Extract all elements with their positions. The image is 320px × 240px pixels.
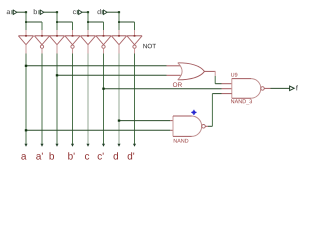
marker plus (blue) bbox=[191, 110, 196, 115]
label b bbox=[34, 9, 37, 14]
NOT gate row output stubs bbox=[26, 45, 135, 54]
wire a-prime vertical bbox=[41, 22, 43, 30]
wire a vertical bus bbox=[25, 54, 27, 147]
node net b to OR input 2 junction bbox=[56, 74, 58, 76]
wire d port to corner bbox=[107, 11, 119, 13]
wire c vertical bbox=[87, 12, 89, 30]
buffer gate (b) bbox=[49, 35, 64, 37]
label NAND_3 bbox=[231, 99, 252, 104]
label NAND bbox=[174, 139, 189, 143]
node d branch T bbox=[118, 21, 120, 23]
wire c branch bbox=[88, 21, 104, 23]
inverter NOT gate (d') bbox=[127, 35, 142, 37]
inverter NOT gate (c') bbox=[96, 35, 111, 37]
wire d' vertical bus bbox=[134, 54, 136, 147]
node net a to NAND input 2 junction bbox=[25, 129, 27, 131]
label U9 bbox=[231, 73, 237, 77]
wire b branch bbox=[57, 21, 73, 23]
label d bbox=[97, 9, 100, 14]
label d' (bottom port) bbox=[128, 152, 135, 159]
inverter NOT gate (b') bbox=[65, 35, 80, 37]
wire c vertical bus bbox=[87, 54, 89, 147]
wire net c-prime to U9 input 2 bbox=[104, 88, 222, 90]
wire OR output to U9 input 1 bbox=[205, 70, 216, 72]
wire d vertical bus bbox=[118, 54, 120, 147]
label b' (bottom port) bbox=[68, 152, 74, 159]
node c branch T bbox=[87, 21, 89, 23]
label NOT bbox=[143, 44, 156, 48]
wire net d to NAND input 1 bbox=[119, 120, 170, 122]
input port d bbox=[102, 10, 107, 14]
wire b vertical bus bbox=[56, 54, 58, 147]
node a corner bbox=[25, 11, 27, 13]
bottom output port arrows bbox=[24, 144, 136, 147]
label a bbox=[7, 10, 11, 14]
node a branch T bbox=[25, 21, 27, 23]
nand gate NAND (bottom) bbox=[172, 116, 174, 136]
node net c-prime to U9 input 2 junction bbox=[102, 88, 104, 90]
red joint dots at gate tops bbox=[25, 35, 135, 37]
wire b vertical bbox=[56, 12, 58, 30]
node c corner bbox=[87, 11, 89, 13]
wire U9 output bbox=[264, 87, 270, 89]
label d (bottom port) bbox=[114, 152, 119, 159]
label c' (bottom port) bbox=[98, 153, 104, 160]
buffer gate (d) bbox=[111, 35, 126, 37]
label a' (bottom port) bbox=[36, 153, 43, 160]
or gate OR bbox=[178, 63, 205, 80]
input port a bbox=[12, 10, 17, 14]
wire a port to corner bbox=[17, 11, 26, 13]
wire b' vertical bus bbox=[72, 54, 74, 147]
wire NAND output to U9 input 3 bbox=[205, 125, 208, 127]
node b corner bbox=[56, 11, 58, 13]
label c bbox=[73, 10, 76, 14]
node d corner bbox=[118, 11, 120, 13]
wire d branch bbox=[119, 21, 135, 23]
node b branch T bbox=[56, 21, 58, 23]
NOT gate row input stubs bbox=[26, 30, 135, 36]
output port f bbox=[290, 86, 295, 91]
wire b-prime vertical bbox=[72, 22, 74, 30]
buffer gate (a) bbox=[18, 35, 33, 37]
wire c-prime vertical bbox=[103, 22, 105, 30]
nand gate U9 NAND_3 bbox=[231, 79, 233, 99]
buffer gate (c) bbox=[80, 35, 95, 37]
label OR bbox=[173, 82, 182, 87]
node net d to NAND input 1 junction bbox=[118, 120, 120, 122]
wire a vertical bbox=[25, 12, 27, 30]
label b (bottom port) bbox=[50, 152, 54, 159]
label c (bottom port) bbox=[85, 154, 89, 159]
wire b port to corner bbox=[44, 11, 57, 13]
wire a' vertical bus bbox=[41, 54, 43, 147]
label a (bottom port) bbox=[21, 154, 26, 159]
label f bbox=[296, 85, 298, 90]
wire net a to NAND input 2 bbox=[26, 129, 170, 131]
wire c port to corner bbox=[82, 11, 88, 13]
wire net b to OR input 2 bbox=[57, 74, 167, 76]
wire c' vertical bus bbox=[103, 54, 105, 147]
inverter NOT gate (a') bbox=[34, 35, 49, 37]
wire net a to OR input 1 bbox=[26, 65, 167, 67]
input port c bbox=[77, 10, 82, 14]
input port b bbox=[39, 10, 44, 14]
wire d-prime vertical bbox=[134, 22, 136, 30]
wire d vertical bbox=[118, 12, 120, 30]
node net a to OR input 1 junction bbox=[25, 65, 27, 67]
wire a branch bbox=[26, 21, 42, 23]
